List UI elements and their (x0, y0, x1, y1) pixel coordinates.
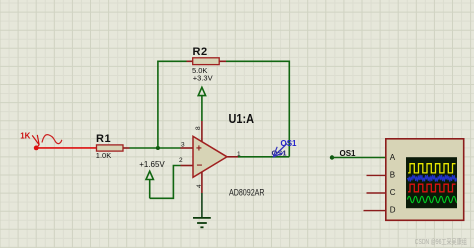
wire: OS1 to oscilloscope channel A (green) (332, 157, 386, 159)
node: junction at R1/feedback (156, 146, 160, 150)
svg-text:A: A (390, 153, 396, 162)
op-amp U1:A (179, 112, 265, 199)
svg-text:AD8092AR: AD8092AR (229, 188, 265, 199)
oscilloscope screen (406, 157, 457, 208)
wire: feedback top and right vertical (green) (226, 61, 289, 157)
waveform channel B (blue noisy) (408, 175, 458, 182)
svg-text:1.0K: 1.0K (96, 151, 111, 160)
svg-text:+1.65V: +1.65V (139, 160, 165, 169)
waveform channel C (red square) (408, 184, 456, 192)
svg-text:CSDN @96工采吴康组: CSDN @96工采吴康组 (415, 237, 467, 246)
wire: source to R1 (red) (36, 147, 96, 149)
wire: op-amp output to feedback corner (green) (238, 156, 289, 158)
svg-text:OS1: OS1 (340, 149, 357, 158)
svg-text:+3.3V: +3.3V (193, 73, 213, 82)
ground (193, 218, 211, 227)
svg-text:D: D (390, 206, 396, 215)
svg-text:U1:A: U1:A (229, 112, 255, 126)
resistor R2 (187, 46, 227, 75)
generator 1K (sine source marker) (20, 132, 62, 151)
power +3.3V (193, 73, 213, 121)
svg-text:8: 8 (195, 126, 202, 130)
svg-text:R1: R1 (96, 133, 111, 145)
svg-text:−: − (197, 161, 203, 172)
wire: R1 to op-amp pin 3 (green) (130, 147, 181, 149)
svg-text:3: 3 (181, 141, 185, 148)
waveform channel D (green sine) (408, 196, 459, 202)
svg-text:B: B (390, 170, 395, 179)
svg-text:2: 2 (179, 157, 183, 164)
wire: +3.3V to pin 8 (red stub) (201, 121, 203, 142)
node: OS1 wire start (330, 155, 334, 159)
oscilloscope (364, 139, 464, 221)
wire: feedback left vertical (green) (158, 61, 187, 148)
svg-text:C: C (390, 188, 396, 197)
power +1.65V (139, 160, 165, 198)
svg-text:R2: R2 (193, 46, 208, 58)
svg-text:1K: 1K (20, 132, 30, 141)
resistor R1 (96, 133, 130, 160)
waveform channel A (yellow square) (408, 164, 456, 173)
wire: +1.65V to pin 2 (green) (150, 166, 181, 199)
wire: pin 4 to ground (201, 172, 203, 193)
svg-text:+: + (196, 144, 202, 155)
probe OS1 (blue voltage probe) (272, 139, 298, 158)
